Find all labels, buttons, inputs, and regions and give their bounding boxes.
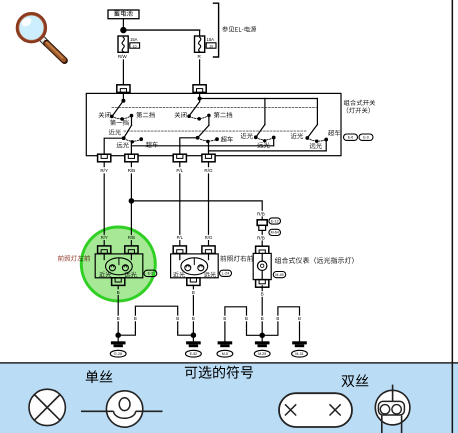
mechanical link dashed line 2	[124, 130, 307, 132]
connector pin R/G	[202, 154, 215, 162]
combination meter high-beam indicator lamp	[253, 253, 271, 279]
pole A label 近光	[109, 129, 121, 135]
svg-text:B: B	[261, 292, 264, 297]
svg-text:M-5: M-5	[222, 352, 228, 356]
pole A label 关闭	[99, 112, 111, 118]
junction node indicator ground	[260, 333, 264, 337]
pole A stage2 link wire	[131, 116, 133, 125]
wire indicator to ground, label B	[260, 286, 265, 336]
svg-text:B: B	[134, 316, 137, 321]
junction node A (battery feed)	[121, 28, 126, 33]
fuse F2 rating label 15A	[206, 37, 216, 48]
legend label 双丝	[342, 374, 369, 387]
connector pin P/L	[173, 154, 186, 162]
pole C contact 远光	[264, 140, 266, 142]
svg-text:R/G: R/G	[204, 168, 213, 173]
switch pole A feed wire	[122, 93, 124, 100]
wire pole C to high-beam bus	[273, 138, 275, 146]
legend symbol: optional rounded box with two X	[279, 393, 352, 427]
bracket reference to EL-power	[214, 3, 219, 57]
svg-text:B: B	[176, 316, 179, 321]
switch pole A lever (off position)	[113, 101, 124, 116]
switch pole D lever	[307, 125, 317, 139]
fuse F2 15A	[195, 36, 205, 52]
wire R/B to left headlamp	[126, 162, 138, 246]
svg-text:M-64: M-64	[271, 231, 279, 235]
pole B label 关闭	[175, 112, 187, 118]
left headlamp connector label	[144, 270, 157, 276]
legend strip background	[0, 362, 458, 433]
svg-text:R/B: R/B	[128, 168, 136, 173]
svg-text:15A: 15A	[130, 37, 138, 42]
mechanical link dashed line 1	[112, 106, 317, 108]
svg-text:P/L: P/L	[177, 235, 184, 240]
connector pin R/B	[125, 154, 138, 162]
switch pole B lever (off position)	[189, 102, 199, 116]
svg-text:R/B: R/B	[257, 211, 265, 216]
svg-text:R/G: R/G	[205, 235, 212, 240]
wire fuse F1 to switch connector, label R/W	[117, 52, 129, 85]
right headlamp terminal 1	[173, 246, 186, 254]
svg-text:B: B	[245, 316, 248, 321]
label 前照灯右前	[220, 255, 253, 261]
wire R/B branch to indicator	[131, 201, 262, 220]
svg-text:R/B: R/B	[257, 235, 265, 240]
legend label 可选的符号	[185, 366, 253, 379]
indicator bottom terminal	[256, 280, 269, 288]
wire pole B high-beam output to R/G pin	[208, 142, 210, 155]
wire junction to fuse F2 branch	[123, 30, 199, 36]
left headlamp terminal 1	[98, 246, 111, 254]
label 组合式仪表（远光指示灯）	[275, 257, 354, 264]
wire P/L to right headlamp	[174, 162, 186, 246]
switch pole A dimmer lever	[124, 125, 132, 138]
label 参见EL-电源	[222, 26, 256, 32]
magnifier icon	[17, 14, 64, 61]
pole A label 远光	[117, 142, 129, 148]
svg-text:10: 10	[209, 44, 213, 48]
switch pole C lever	[256, 125, 265, 138]
svg-text:B: B	[276, 316, 279, 321]
svg-text:B: B	[223, 316, 226, 321]
pole A contact 超车	[140, 138, 143, 141]
svg-text:M-25: M-25	[258, 352, 266, 356]
svg-text:R/Y: R/Y	[100, 168, 108, 173]
switch pole B feed wire	[199, 93, 201, 101]
wire pole B low-beam output to P/L pin	[180, 138, 198, 154]
wire fuse F2 to switch connector, label R	[196, 52, 203, 85]
label 组合式开关（灯开关）	[344, 100, 375, 114]
pole C label 远光	[257, 142, 269, 148]
junction node on R/B wire	[129, 199, 133, 203]
svg-text:E-52: E-52	[190, 352, 198, 356]
svg-text:B: B	[298, 316, 301, 321]
svg-text:B: B	[192, 316, 195, 321]
pole C arc	[256, 138, 274, 140]
svg-text:E-13: E-13	[271, 219, 279, 223]
wire right headlamp to ground, label B	[191, 285, 196, 335]
svg-text:L-24: L-24	[222, 272, 229, 276]
pole D label 近光	[291, 133, 303, 139]
svg-text:B: B	[261, 316, 264, 321]
wire R/Y to left headlamp	[99, 162, 111, 246]
pole A label 第二挡	[136, 112, 154, 118]
svg-text:R/W: R/W	[118, 54, 128, 59]
high-beam indicator top terminal	[256, 246, 269, 254]
pole B travel arc	[189, 115, 209, 118]
right headlamp connector label	[220, 270, 232, 276]
wire left headlamp to ground, label B	[116, 285, 121, 335]
ground bridge wires right cluster	[222, 307, 302, 342]
pole A label 超车	[146, 142, 158, 148]
pole B contact 远光	[207, 140, 209, 142]
ground symbol M-31	[292, 342, 308, 357]
inline connector pair on R/B branch	[257, 220, 267, 231]
fuse F1 rating label 15A	[130, 37, 140, 48]
pole A contact 第二挡	[130, 114, 132, 116]
right lamp label 远光	[204, 272, 216, 278]
pole A contact 关闭	[111, 115, 113, 117]
legend label 单丝	[86, 370, 113, 383]
wire battery to junction	[122, 19, 124, 30]
pole C end contact	[272, 136, 275, 139]
left headlamp 前照灯左前	[95, 254, 143, 278]
svg-text:B: B	[117, 316, 120, 321]
pole D contact 超车	[325, 138, 328, 141]
left lamp label 远光	[125, 272, 137, 278]
pole B dimmer pivot 近光	[196, 137, 199, 140]
svg-text:M-45: M-45	[275, 273, 283, 277]
wire pole A low-beam output to R/Y pin	[104, 138, 124, 154]
pole A label 第一挡	[110, 120, 128, 126]
pole B contact 超车	[216, 138, 219, 141]
feed bus wire to dimmer poles	[200, 99, 318, 125]
legend symbol: lamp circle with X	[29, 389, 65, 425]
svg-text:10: 10	[133, 44, 137, 48]
pole D pivot 近光	[306, 137, 309, 140]
connector pin 1 (R/W into switch)	[117, 85, 130, 93]
ground symbol M-25	[254, 335, 270, 357]
svg-text:M-31: M-31	[295, 352, 303, 356]
pole B contact 第二挡	[208, 114, 210, 116]
left lamp label 近光	[99, 272, 111, 278]
feed bus junction	[198, 97, 201, 100]
ground symbol E-28	[110, 335, 126, 357]
pole A contact 远光	[131, 141, 133, 143]
svg-text:15A: 15A	[207, 37, 215, 42]
pole D contact 远光	[316, 140, 318, 142]
high-beam bus wire	[131, 145, 273, 147]
pole A dimmer arc	[124, 138, 141, 141]
pole D label 远光	[310, 143, 322, 149]
ground symbol E-52	[186, 335, 202, 357]
battery 蓄电池	[108, 10, 139, 19]
label 前照灯左前 (highlighted red)	[58, 255, 90, 261]
fuse F1 15A	[118, 36, 128, 52]
svg-text:P/L: P/L	[176, 168, 183, 173]
wire R/G to right headlamp	[203, 162, 215, 246]
pole A contact 第一挡	[121, 118, 123, 120]
svg-text:E-6: E-6	[348, 136, 354, 140]
wire pole D to flash bus	[325, 140, 327, 151]
ground bridge wire left (E-28 to E-52)	[118, 306, 193, 335]
legend symbol: single filament bulb	[81, 391, 163, 427]
connector pin 2 (R into switch)	[193, 85, 206, 93]
combination switch box	[86, 93, 341, 155]
pole C pivot 近光	[255, 136, 258, 139]
pole B contact 第一挡	[198, 118, 200, 120]
pole D label 超车	[328, 130, 340, 136]
wire pole A high-beam output to R/B pin	[130, 142, 132, 154]
connector labels E-13 / M-64	[269, 218, 281, 236]
switch pole B dimmer lever	[198, 125, 209, 138]
switch connector labels E-6 E-9	[344, 134, 374, 140]
wire label R/B below connector	[256, 230, 267, 246]
left headlamp bottom terminal	[112, 278, 125, 286]
svg-text:E-28: E-28	[114, 352, 122, 356]
pole C label 近光	[241, 133, 253, 139]
pole B stage2 link wire	[208, 116, 210, 125]
svg-text:E-9: E-9	[363, 136, 369, 140]
right headlamp 前照灯右前	[171, 254, 219, 278]
junction node mid ground	[191, 333, 195, 337]
wire color labels above lamp terminals	[99, 235, 213, 240]
pole B dimmer arc	[198, 138, 217, 141]
wire label R/B above connector	[256, 211, 267, 217]
pole A travel arc	[112, 116, 132, 119]
junction node left ground	[116, 333, 120, 337]
highlight circle around left headlamp	[81, 227, 155, 301]
page right border line	[452, 0, 454, 433]
legend symbol: double filament headlamp	[375, 385, 410, 433]
flash bus wire	[209, 150, 327, 152]
pole D arc	[308, 138, 327, 141]
svg-text:B: B	[192, 290, 195, 295]
pole A dimmer pivot 近光	[122, 137, 125, 140]
pole B label 超车	[221, 136, 233, 142]
indicator connector label	[273, 272, 285, 278]
ground symbol M-5	[217, 342, 233, 357]
right headlamp terminal 2	[202, 246, 215, 254]
right lamp label 近光	[173, 272, 185, 278]
pole B contact 关闭	[188, 115, 190, 117]
pole B label 第二挡	[214, 112, 232, 118]
label 蓄电池	[114, 10, 133, 16]
right headlamp bottom terminal	[187, 278, 200, 286]
connector pin R/Y	[98, 154, 111, 162]
left headlamp terminal 2	[125, 246, 138, 254]
